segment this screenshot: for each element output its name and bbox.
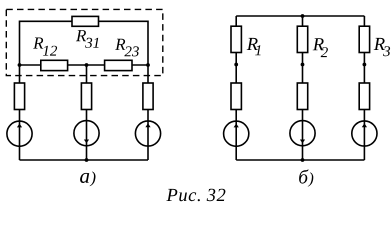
arrow of source E3 circuit b (up) <box>362 123 367 127</box>
resistor in branch 3 of circuit a <box>143 83 153 110</box>
wire: circuit a delta bottom wire <box>20 64 149 66</box>
resistor R23 <box>105 60 132 70</box>
caption Puc. 32 <box>166 189 225 202</box>
label R2 <box>313 38 328 57</box>
dashed box around delta network <box>6 9 163 75</box>
arrow of source E3 circuit a (up) <box>145 123 150 127</box>
wire: circuit b bottom wire <box>236 159 364 161</box>
node: junction dot circuit b top <box>301 14 305 18</box>
label R12 <box>33 38 57 56</box>
node: junction dot branch 2 circuit b <box>301 63 305 67</box>
wire: circuit a top wire <box>20 20 149 22</box>
resistor R3 <box>359 26 369 52</box>
EMF source E2 of circuit b <box>290 121 315 146</box>
node: junction dot circuit a bottom <box>85 158 89 162</box>
resistor R31 <box>72 16 99 26</box>
node: junction dot branch 1 circuit b <box>234 63 238 67</box>
arrow of source E1 circuit a (up) <box>17 124 22 128</box>
resistor R1 <box>231 26 241 52</box>
arrow of source E2 circuit b (down) <box>300 140 305 144</box>
resistor in branch 2 of circuit a <box>81 83 91 110</box>
resistor R12 <box>41 60 68 70</box>
node: junction dot left circuit a delta <box>18 63 22 67</box>
EMF source E3 of circuit a <box>135 121 160 146</box>
wire: circuit a bottom wire <box>20 159 149 161</box>
wire: circuit a right vertical <box>147 21 149 161</box>
resistor in branch 1 of circuit b <box>231 83 241 110</box>
wire: circuit a left vertical <box>19 21 21 161</box>
wire: circuit a middle vertical <box>86 65 88 160</box>
EMF source E1 of circuit b <box>224 121 249 146</box>
node: junction dot middle circuit a delta <box>85 63 89 67</box>
node: junction dot branch 3 circuit b <box>363 63 367 67</box>
wire: circuit b top wire <box>236 15 364 17</box>
label R3 <box>374 38 390 56</box>
node: junction dot circuit b bottom <box>301 158 305 162</box>
EMF source E1 of circuit a <box>7 121 32 146</box>
arrow of source E1 circuit b (up) <box>234 124 239 128</box>
label a) <box>80 171 95 186</box>
resistor in branch 3 of circuit b <box>359 83 369 110</box>
wire: circuit b middle vertical <box>302 16 304 160</box>
label b) <box>299 169 313 186</box>
label R1 <box>247 38 261 55</box>
label R31 <box>76 30 99 48</box>
arrow of source E2 circuit a (down) <box>84 140 89 144</box>
wire: circuit b right vertical <box>363 16 365 160</box>
EMF source E2 of circuit a <box>74 121 99 146</box>
resistor R2 <box>297 26 307 52</box>
node: junction dot right circuit a delta <box>146 63 150 67</box>
resistor in branch 2 of circuit b <box>297 83 307 110</box>
wire: circuit b left vertical <box>235 16 237 160</box>
resistor in branch 1 of circuit a <box>14 83 24 110</box>
EMF source E3 of circuit b <box>352 121 377 146</box>
label R23 <box>115 39 139 57</box>
